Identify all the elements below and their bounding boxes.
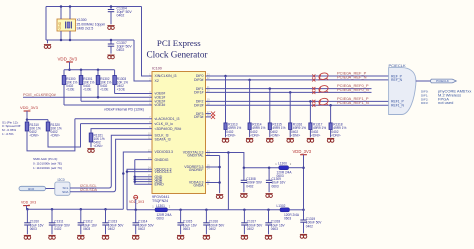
ground C1318	[265, 235, 272, 239]
resistor R1318	[330, 105, 332, 123]
svg-text:<DNI>: <DNI>	[271, 134, 280, 138]
svg-text:L1300: L1300	[278, 162, 287, 166]
resistor R1300	[63, 70, 65, 76]
node tap R1317	[309, 100, 312, 103]
wire rail feed	[227, 153, 229, 210]
svg-text:VDD_3V3: VDD_3V3	[58, 56, 78, 61]
svg-text:GNDXTAL: GNDXTAL	[187, 154, 203, 158]
node tap R1315	[269, 87, 272, 90]
ground C1312	[77, 235, 84, 239]
wire X1 drop to XIN	[142, 7, 153, 77]
node tap R1313	[224, 75, 227, 78]
ground C1307	[107, 55, 114, 59]
svg-text:VDDIOD3.3: VDDIOD3.3	[155, 150, 174, 154]
wire PCIE0A_REF0_N	[206, 91, 372, 93]
wire X2 bottom rail	[46, 39, 134, 41]
wire PCIE0A_REF_N	[206, 79, 389, 81]
wire VDDXTAL feed	[206, 153, 244, 168]
svg-text:0603: 0603	[183, 227, 190, 231]
resistor R1315	[269, 89, 271, 123]
svg-text:DIF2#: DIF2#	[194, 103, 204, 107]
svg-text:PCIE0A_REF1_N: PCIE0A_REF1_N	[337, 100, 369, 105]
svg-text:vOEx# Internal PD (120k): vOEx# Internal PD (120k)	[104, 108, 144, 112]
svg-text:SMD Addr (Pin 6):: SMD Addr (Pin 6):	[33, 157, 58, 161]
wire GND bundle	[135, 159, 152, 161]
wire PCIE0A_REF0_P	[206, 88, 372, 90]
wire SCL	[70, 135, 152, 188]
wire GNDXTAL	[206, 155, 220, 157]
capacitor C1309	[268, 168, 270, 181]
twist marker pair 0	[312, 74, 315, 77]
wire PCIE0A_REF1_P	[206, 100, 389, 102]
svg-text:VDDOL3.3: VDDOL3.3	[155, 170, 172, 174]
svg-text:TSQFN24: TSQFN24	[152, 199, 168, 203]
svg-text:<1OE: <1OE	[117, 88, 125, 92]
wire bottom rail 3	[290, 209, 304, 211]
svg-text:0603: 0603	[157, 216, 164, 220]
wire vOE2# net	[81, 100, 152, 102]
wire crystal pin1	[60, 7, 62, 20]
resistor R1321	[89, 133, 93, 142]
crystal X1300	[57, 19, 76, 31]
svg-text:0603: 0603	[284, 216, 291, 220]
harness connector I2C0	[55, 182, 70, 195]
svg-text:<3DP#/IOD_RX#: <3DP#/IOD_RX#	[155, 127, 182, 131]
wire I2C0 to harness	[46, 188, 55, 190]
capacitor C1318	[268, 210, 270, 223]
resistor R1310	[26, 120, 28, 122]
resistor R1316	[289, 92, 291, 123]
svg-text:IC100: IC100	[152, 67, 162, 71]
wire bottom rail 2	[168, 209, 281, 211]
node tap R1314	[248, 79, 251, 82]
wire decoupling rail left	[27, 208, 124, 210]
svg-text:Clock Generator: Clock Generator	[147, 50, 208, 60]
wire X2 drop to pin	[134, 40, 152, 81]
capacitor C1317	[243, 210, 245, 223]
wire vOE pullup rail	[64, 69, 115, 71]
svg-text:<DNI>: <DNI>	[30, 134, 39, 138]
svg-text:0402: 0402	[246, 184, 253, 188]
capacitor C1319	[303, 210, 305, 220]
twist marker pair 2	[312, 100, 315, 103]
ground C1316	[203, 235, 210, 239]
svg-text:<DNI>: <DNI>	[291, 134, 300, 138]
ground C1315	[177, 235, 184, 239]
svg-text:DIF3#: DIF3#	[194, 115, 204, 119]
wire config rail	[27, 119, 48, 121]
svg-text:0603: 0603	[30, 227, 37, 231]
resistor R1313	[225, 76, 227, 123]
port PCIECLK off-sheet	[430, 79, 456, 83]
ground R1318	[327, 138, 334, 142]
svg-text:VDD_3V3: VDD_3V3	[293, 149, 312, 154]
svg-text:EPAD: EPAD	[155, 183, 165, 187]
ground C1314	[132, 235, 139, 239]
capacitor C1307	[110, 40, 112, 44]
ground C1308	[240, 194, 247, 198]
svg-text:0402: 0402	[138, 227, 145, 231]
svg-text:PCIE0A_REF0_N: PCIE0A_REF0_N	[337, 87, 369, 92]
twist marker pair 1	[312, 87, 315, 90]
svg-text:PCIECLK: PCIECLK	[389, 63, 406, 68]
svg-text:0402: 0402	[209, 227, 216, 231]
svg-text:VDD_3V3: VDD_3V3	[21, 201, 36, 205]
capacitor C1311	[51, 209, 53, 223]
svg-text:<DNI>: <DNI>	[331, 134, 340, 138]
wire L1300 to VDD	[289, 167, 304, 169]
svg-text:0402: 0402	[306, 224, 313, 228]
svg-text:0: 1101000b (adr 7E): 0: 1101000b (adr 7E)	[33, 161, 62, 165]
svg-text:VDD_3V3: VDD_3V3	[129, 200, 144, 204]
svg-text:1: 1101001b (adr 7C): 1: 1101001b (adr 7C)	[33, 166, 62, 170]
wire vOE1# net PCIE_vCLKREQ0#	[23, 96, 152, 98]
svg-text:DIF1#: DIF1#	[194, 91, 204, 95]
wire SDA	[70, 139, 152, 192]
capacitor C1304	[110, 7, 112, 10]
svg-text:GND: GND	[58, 21, 62, 29]
svg-text:PCIE0A_REF_N: PCIE0A_REF_N	[337, 75, 367, 80]
svg-text:REF_N: REF_N	[391, 78, 403, 82]
ground C1311	[48, 235, 55, 239]
svg-text:SMD 2x2.5: SMD 2x2.5	[77, 27, 94, 31]
no-connect DIF3	[211, 112, 215, 116]
ground R1316	[287, 138, 294, 142]
wire crystal pin4	[69, 7, 71, 20]
svg-text:I2C0: I2C0	[28, 187, 35, 191]
resistor R1320	[47, 120, 49, 122]
svg-text:vOE3#: vOE3#	[155, 103, 166, 107]
resistor R1301	[80, 70, 82, 76]
svg-text:GNDA: GNDA	[193, 184, 204, 188]
svg-text:0402: 0402	[108, 227, 115, 231]
inductor L1302	[280, 208, 290, 212]
svg-text:<DNI>: <DNI>	[94, 144, 103, 148]
svg-text:PCI Express: PCI Express	[157, 38, 201, 48]
resistor R1314	[249, 80, 251, 123]
harness connector PCIECLK	[389, 68, 416, 115]
svg-text:0402: 0402	[117, 14, 125, 18]
ground R1314	[246, 138, 253, 142]
ground R1313	[222, 138, 229, 142]
wire vCLK net	[81, 123, 153, 125]
ground C1313	[102, 235, 109, 239]
node tap R1318	[329, 104, 332, 107]
ground crystal rail	[47, 40, 49, 43]
svg-text:<1OE: <1OE	[100, 88, 108, 92]
node crystal rails	[60, 5, 63, 8]
capacitor C1314	[135, 210, 137, 223]
svg-text:<1OE: <1OE	[83, 88, 91, 92]
svg-text:0402: 0402	[54, 227, 61, 231]
capacitor C1312	[80, 209, 82, 223]
svg-text:X2: X2	[155, 79, 159, 83]
svg-text:VDD_3V3: VDD_3V3	[20, 105, 39, 110]
svg-text:L1301: L1301	[156, 204, 165, 208]
wire harness out	[416, 80, 432, 82]
svg-text:<1OE: <1OE	[66, 88, 74, 92]
wire PCIE0A_REF_P	[206, 75, 389, 77]
capacitor C1313	[105, 209, 107, 223]
svg-text:SDATA_I3: SDATA_I3	[155, 137, 171, 141]
port I2C0 bus entry	[19, 186, 46, 190]
ground R1315	[266, 138, 273, 142]
capacitor C1316	[205, 210, 207, 223]
svg-text:1: -0.5%: 1: -0.5%	[2, 132, 14, 136]
svg-text:<DNI>: <DNI>	[226, 134, 235, 138]
power VDD_3V3 mid	[134, 195, 138, 199]
svg-text:<DNI>: <DNI>	[311, 134, 320, 138]
wire vOE0# net	[115, 93, 152, 95]
wire vOE3# net	[64, 104, 152, 106]
svg-text:DIF0#: DIF0#	[194, 78, 204, 82]
svg-text:REF1_N: REF1_N	[391, 103, 405, 107]
ground C1310	[24, 235, 31, 239]
inductor L1301	[155, 208, 168, 212]
svg-text:PCIE_vCLKREQ0#: PCIE_vCLKREQ0#	[23, 93, 57, 97]
svg-text:<DNI>: <DNI>	[250, 134, 259, 138]
svg-text:0603: 0603	[272, 184, 279, 188]
svg-text:vLACK/IOD1_I3: vLACK/IOD1_I3	[155, 117, 180, 121]
wire PCIE0A_REF1_N	[206, 104, 389, 106]
svg-text:0402: 0402	[247, 227, 254, 231]
wire left vertical	[45, 7, 47, 41]
wire X1 top rail	[46, 6, 142, 8]
svg-text:GNDDIG: GNDDIG	[155, 158, 169, 162]
capacitor C1315	[180, 210, 182, 223]
wire VDDOL drop	[127, 169, 152, 210]
svg-text:not used: not used	[438, 100, 453, 105]
ground C1309	[266, 194, 273, 198]
ground C1317	[241, 235, 248, 239]
svg-text:PCIECLK: PCIECLK	[436, 79, 449, 83]
resistor R1303	[114, 70, 116, 76]
resistor R1302	[97, 70, 99, 76]
ground R1321	[87, 149, 94, 153]
svg-text:0603: 0603	[271, 227, 278, 231]
wire VDDIOD drop	[123, 152, 152, 209]
op-amp U1 clock generator IC100 body	[152, 72, 206, 194]
svg-text:0402: 0402	[117, 48, 125, 52]
wire crystal pin2	[60, 31, 62, 40]
ground GNDXTAL	[216, 195, 223, 199]
wire IOD_RX net	[91, 129, 152, 133]
svg-text:XIN/CLKIN_I3: XIN/CLKIN_I3	[155, 74, 177, 78]
svg-text:DIF3:: DIF3:	[421, 101, 429, 105]
svg-text:vCLK_IX_io: vCLK_IX_io	[155, 122, 174, 126]
wire DIF3 stub	[206, 113, 212, 115]
inductor L1300	[279, 166, 289, 170]
svg-text:I2C0-SDA: I2C0-SDA	[80, 188, 98, 192]
capacitor C1310	[26, 209, 28, 223]
node tap R1316	[289, 91, 292, 94]
svg-text:L1302: L1302	[277, 204, 286, 208]
svg-text:0603: 0603	[83, 227, 90, 231]
wire vLACK net	[75, 118, 152, 120]
ground C1319	[300, 234, 307, 238]
wire bottom rail 1	[127, 209, 155, 211]
svg-text:GNDREF: GNDREF	[189, 168, 204, 172]
svg-text:I2C0: I2C0	[58, 178, 65, 182]
capacitor C1308	[243, 168, 245, 181]
ground C1304	[107, 26, 114, 30]
wire analog supply	[244, 167, 279, 169]
svg-text:SDA: SDA	[62, 190, 69, 194]
svg-text:<DNI>: <DNI>	[51, 134, 60, 138]
resistor R1317	[309, 101, 311, 123]
wire crystal pin3	[69, 31, 71, 40]
ground R1317	[307, 138, 314, 142]
